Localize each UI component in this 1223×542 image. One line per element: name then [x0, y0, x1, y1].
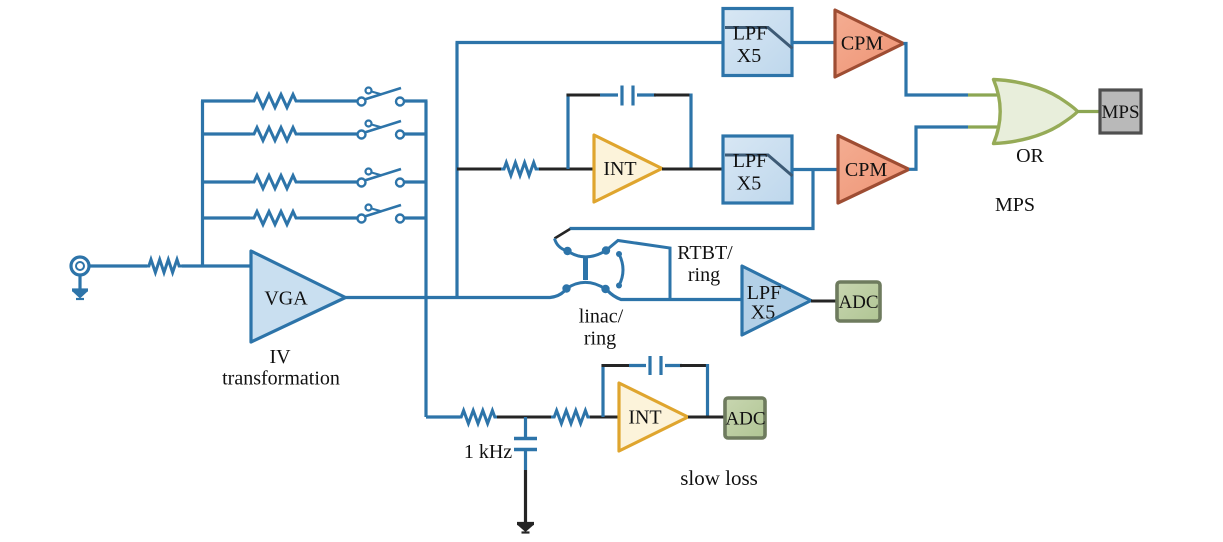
- wire branch 2 left: [201, 132, 250, 135]
- svg-text:INT: INT: [628, 407, 661, 429]
- crossbar switch lower arc: [567, 282, 606, 289]
- switch S2 branch 2: [358, 121, 405, 139]
- resistor R6 INT1 input: [501, 163, 539, 176]
- resistor R4 gain branch 3: [250, 176, 300, 189]
- svg-text:CPM: CPM: [845, 159, 887, 181]
- svg-text:transformation: transformation: [222, 368, 340, 390]
- wire INT1 to LPF2: [662, 168, 724, 171]
- svg-text:CPM: CPM: [841, 33, 883, 55]
- resistor R3 gain branch 2: [250, 128, 300, 141]
- LPF X5 block 1: [723, 9, 792, 76]
- ADC1 block: [837, 282, 880, 321]
- wire resistor to INT1: [539, 168, 595, 171]
- integrator INT2: [619, 383, 688, 451]
- svg-text:INT: INT: [603, 158, 636, 180]
- resistor R8 slow loss 2: [551, 411, 591, 424]
- svg-text:OR: OR: [1016, 145, 1044, 167]
- switch S1 branch 1: [358, 88, 405, 106]
- ground at input: [72, 276, 88, 300]
- filter glyph 1: [725, 28, 793, 49]
- switch arm link to contact: [555, 239, 567, 251]
- wire branch 4 right: [404, 216, 428, 219]
- svg-text:RTBT/: RTBT/: [677, 242, 733, 264]
- wire tee down from LPF2-CPM2 to RTBT: [811, 170, 814, 231]
- svg-text:VGA: VGA: [264, 288, 308, 310]
- crossbar switch link bar: [583, 258, 588, 281]
- wire branch 1 right: [404, 99, 428, 102]
- wire input resistor to VGA: [182, 264, 252, 267]
- input source J1: [71, 257, 89, 275]
- wire source to input resistor: [89, 264, 147, 267]
- wire CPM1 to OR top input: [904, 44, 969, 96]
- wire branch 2 right: [404, 132, 428, 135]
- crossbar switch upper arc: [568, 251, 607, 257]
- wire branch 3 right: [404, 180, 428, 183]
- svg-text:X5: X5: [737, 173, 761, 195]
- svg-text:ring: ring: [688, 264, 720, 286]
- wire RTBT throw to output: [606, 241, 670, 301]
- comparator CPM2: [838, 136, 909, 204]
- svg-text:LPF: LPF: [733, 23, 767, 45]
- resistor R2 gain branch 1: [250, 95, 300, 108]
- svg-text:LPF: LPF: [733, 150, 767, 172]
- wire bus to resistor INT1: [457, 168, 502, 171]
- svg-text:1 kHz: 1 kHz: [464, 441, 512, 463]
- wire branch 4 left: [201, 216, 250, 219]
- switch arm black linac/ring: [555, 229, 571, 239]
- wire between resistors: [497, 416, 552, 419]
- feedback capacitor C1 loop: [567, 86, 693, 170]
- resistor R1 input series: [146, 260, 182, 273]
- comparator CPM1: [835, 10, 904, 77]
- resistor R5 gain branch 4: [250, 212, 300, 225]
- wire branch 3 middle: [300, 180, 358, 183]
- feedback capacitor C3 loop: [602, 356, 710, 417]
- left bus of gain resistor bank: [201, 101, 204, 266]
- wire branch 1 left: [201, 99, 250, 102]
- contact node E: [562, 284, 570, 292]
- filter glyph 2: [725, 155, 793, 176]
- svg-text:slow loss: slow loss: [680, 466, 758, 490]
- capacitor C2 1kHz to ground: [514, 417, 537, 470]
- svg-text:ADC: ADC: [725, 409, 765, 430]
- ground slow loss: [517, 524, 534, 533]
- wire branch 3 left: [201, 180, 250, 183]
- wire branch 4 middle: [300, 216, 358, 219]
- op-amp VGA: [251, 251, 346, 342]
- LPF X5 block 2: [723, 136, 792, 203]
- switch S3 branch 3: [358, 169, 405, 187]
- wire CPM2 to OR bottom input: [909, 127, 968, 169]
- svg-text:linac/: linac/: [579, 306, 624, 328]
- svg-text:X5: X5: [737, 45, 761, 67]
- svg-text:IV: IV: [269, 346, 291, 368]
- svg-text:MPS: MPS: [995, 194, 1035, 216]
- LPF X5 amplifier triangle: [742, 266, 811, 335]
- right bus of gain resistor bank down to lower branch: [424, 101, 427, 417]
- wire branch 2 middle: [300, 132, 358, 135]
- OR gate: [994, 80, 1078, 144]
- svg-text:ring: ring: [584, 328, 616, 350]
- switch S4 branch 4: [358, 205, 405, 223]
- vertical bus to fast-loss branches: [455, 43, 458, 298]
- wire INT2 to ADC2: [688, 416, 726, 419]
- wire resistor to INT2: [590, 416, 620, 419]
- ADC2 block: [725, 398, 765, 438]
- svg-text:MPS: MPS: [1101, 102, 1139, 123]
- wire OR output to MPS: [1077, 110, 1101, 113]
- wire top branch to LPF1: [456, 41, 725, 44]
- wire LPF triangle to ADC1: [811, 300, 838, 303]
- MPS block: [1100, 90, 1141, 133]
- contact node C: [563, 247, 571, 255]
- svg-text:X5: X5: [751, 302, 775, 324]
- wire LPF2 to CPM2: [792, 168, 839, 171]
- contact node D: [602, 246, 610, 254]
- wire VGA output main line: [346, 291, 565, 298]
- contact node F: [601, 285, 609, 293]
- wire RTBT top horizontal: [570, 227, 815, 230]
- wire branch 1 middle: [300, 99, 358, 102]
- wire capacitor to ground: [524, 470, 527, 523]
- resistor R7 slow loss 1: [458, 411, 498, 424]
- integrator INT1: [594, 135, 662, 202]
- wire switch output to LPF triangle: [608, 291, 744, 300]
- svg-text:ADC: ADC: [838, 292, 878, 313]
- movable contact arc: [616, 251, 623, 289]
- wire LPF1 to CPM1: [792, 41, 836, 44]
- wire lower branch start: [426, 415, 460, 418]
